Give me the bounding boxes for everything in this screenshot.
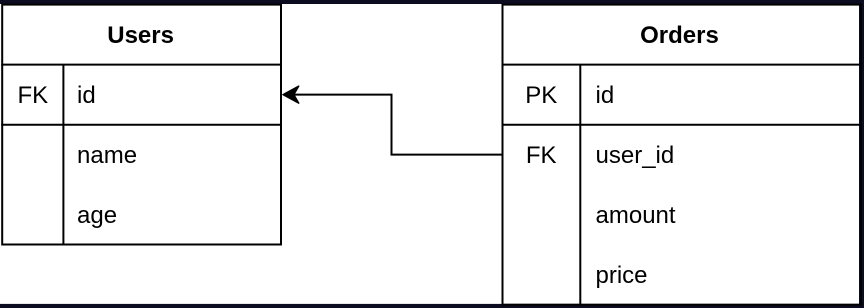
- svg-text:name: name: [77, 142, 137, 169]
- svg-text:id: id: [596, 82, 615, 109]
- svg-text:PK: PK: [525, 82, 557, 109]
- svg-text:age: age: [77, 202, 117, 229]
- svg-text:price: price: [596, 262, 648, 289]
- svg-text:FK: FK: [17, 82, 48, 109]
- svg-text:FK: FK: [526, 142, 557, 169]
- svg-text:user_id: user_id: [596, 142, 675, 169]
- svg-text:id: id: [77, 82, 96, 109]
- svg-text:Users: Users: [107, 22, 174, 49]
- svg-text:Orders: Orders: [640, 22, 719, 49]
- svg-text:amount: amount: [596, 202, 676, 229]
